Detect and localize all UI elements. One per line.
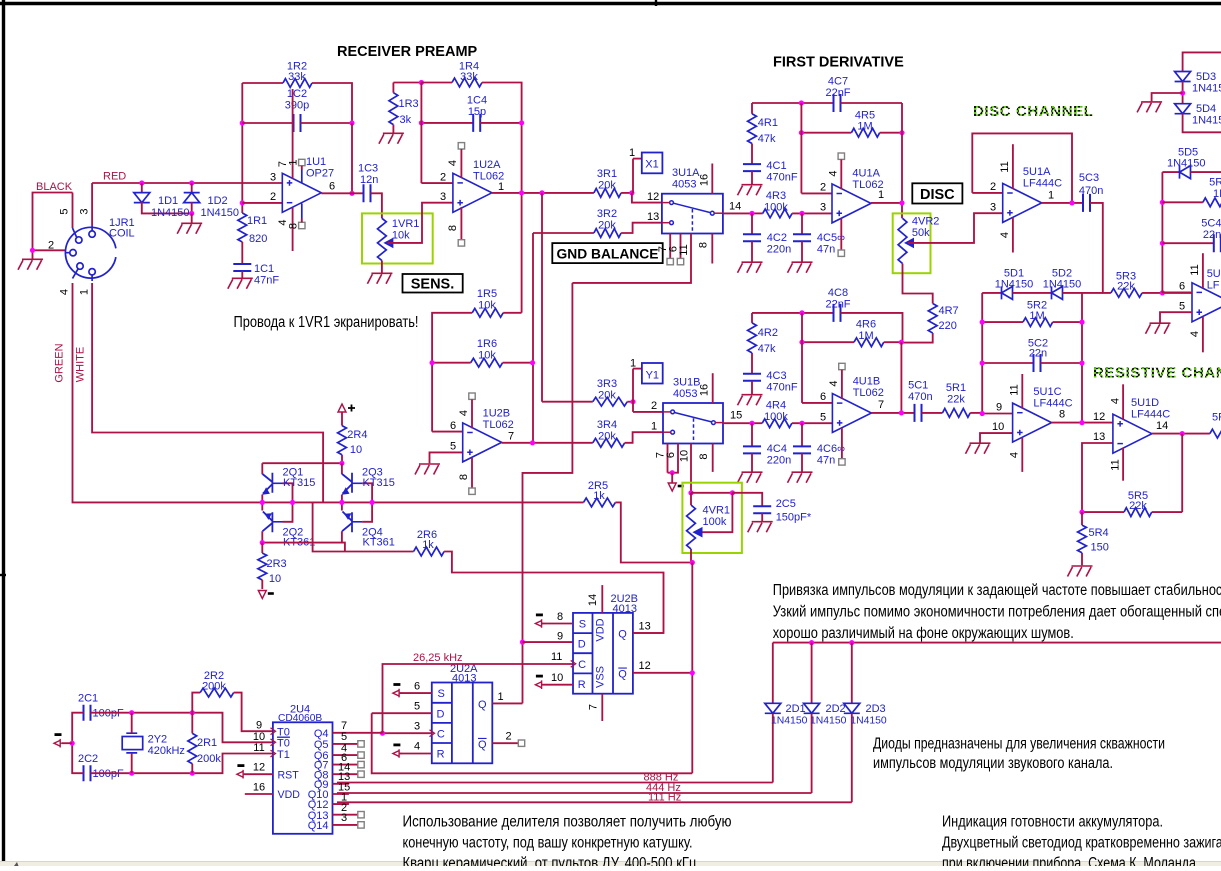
svg-text:4C4: 4C4 bbox=[767, 443, 787, 455]
svg-text:14: 14 bbox=[729, 201, 741, 213]
op-amp 5U1C bbox=[1013, 403, 1052, 442]
node 5C4 left bbox=[1160, 241, 1165, 246]
diode 2D1 bbox=[772, 643, 774, 704]
power flag V- osc bbox=[54, 739, 63, 748]
svg-text:10: 10 bbox=[551, 672, 563, 684]
svg-text:1: 1 bbox=[629, 147, 635, 159]
wire osc bottom rail bbox=[91, 754, 273, 774]
2U2A Qbar wire bbox=[492, 742, 518, 744]
wire 5U1D output bbox=[1152, 433, 1210, 435]
svg-text:4VR2: 4VR2 bbox=[912, 216, 940, 228]
svg-text:1k: 1k bbox=[593, 490, 605, 502]
wire 4VR1 bottom down bbox=[691, 563, 693, 774]
svg-text:OP27: OP27 bbox=[306, 168, 334, 180]
node 1U1 output bbox=[349, 191, 354, 196]
4U1A pin8 stub bbox=[840, 219, 842, 250]
diode 5D1 bbox=[1002, 286, 1013, 299]
svg-text:D: D bbox=[437, 708, 445, 720]
svg-text:2R1: 2R1 bbox=[197, 737, 217, 749]
svg-text:4C8: 4C8 bbox=[828, 287, 848, 299]
node X1 bbox=[629, 190, 634, 195]
svg-text:RST: RST bbox=[278, 769, 300, 781]
svg-text:4C2: 4C2 bbox=[767, 232, 787, 244]
node 2R4 bottom bbox=[339, 461, 344, 466]
wire to 3U1A pin12 bbox=[632, 193, 662, 203]
diode 5D5 bbox=[1162, 171, 1179, 173]
svg-text:150pF*: 150pF* bbox=[776, 512, 812, 524]
op-amp 5U1B bbox=[1192, 283, 1221, 322]
wire 2U2B D bbox=[523, 641, 574, 643]
capacitor 4C1 bbox=[743, 164, 761, 171]
resistor 5R6 bbox=[1162, 201, 1203, 203]
svg-text:6: 6 bbox=[820, 391, 826, 403]
svg-text:4C6∞: 4C6∞ bbox=[817, 443, 845, 455]
5U1B pin11 stub bbox=[1202, 253, 1204, 288]
svg-text:33k: 33k bbox=[460, 71, 478, 83]
wire 1VR1 bottom to ground bbox=[381, 261, 383, 273]
svg-text:3: 3 bbox=[820, 202, 826, 214]
border tick top bbox=[655, 0, 657, 6]
wire modulation rail bbox=[773, 642, 1221, 644]
node 5R2 right bbox=[1079, 320, 1084, 325]
svg-text:10: 10 bbox=[992, 421, 1004, 433]
node 4R3 right bbox=[799, 211, 804, 216]
svg-text:4U1A: 4U1A bbox=[852, 168, 880, 180]
svg-text:20k: 20k bbox=[598, 431, 616, 443]
wire 5U1B +in with ground bbox=[1160, 312, 1192, 322]
svg-text:T1: T1 bbox=[277, 749, 290, 761]
wire 1U2A output row bbox=[492, 192, 594, 194]
wire 1U2A -in bbox=[421, 182, 453, 184]
svg-text:5C4: 5C4 bbox=[1201, 218, 1221, 230]
svg-text:7: 7 bbox=[878, 399, 884, 411]
2U2B pin10 flag bbox=[535, 680, 544, 689]
capacitor 5C2 bbox=[982, 362, 1033, 364]
capacitor 4C2 bbox=[751, 213, 753, 234]
svg-text:1: 1 bbox=[498, 181, 504, 193]
svg-text:1U2A: 1U2A bbox=[473, 159, 501, 171]
svg-text:26,25 kHz: 26,25 kHz bbox=[413, 652, 463, 664]
svg-text:1C4: 1C4 bbox=[467, 95, 487, 107]
node 1R6 right bbox=[530, 360, 535, 365]
svg-text:1N4150: 1N4150 bbox=[1192, 83, 1221, 95]
svg-text:3: 3 bbox=[990, 202, 996, 214]
svg-text:4: 4 bbox=[447, 160, 459, 166]
svg-text:FIRST DERIVATIVE: FIRST DERIVATIVE bbox=[773, 55, 904, 71]
node 4R4 left bbox=[749, 421, 754, 426]
svg-text:4: 4 bbox=[828, 380, 840, 386]
test point box Y1 bbox=[642, 363, 663, 384]
green highlight box 1VR1 bbox=[362, 213, 433, 263]
svg-text:Q: Q bbox=[478, 699, 487, 711]
svg-text:4053: 4053 bbox=[672, 179, 696, 191]
3U1A pin11 wire to 2U2A Q bbox=[572, 234, 691, 283]
svg-text:KT315: KT315 bbox=[283, 477, 315, 489]
resistor 2R3 bbox=[261, 543, 263, 554]
node 2Q1 base bbox=[290, 500, 295, 505]
wire 4VR1 wiper bbox=[700, 493, 732, 532]
node 4C7 left bbox=[799, 100, 804, 105]
svg-text:5: 5 bbox=[450, 441, 456, 453]
svg-text:470nF: 470nF bbox=[766, 382, 797, 394]
svg-text:DISC CHANNEL: DISC CHANNEL bbox=[973, 103, 1094, 120]
svg-text:100k: 100k bbox=[703, 516, 727, 528]
svg-text:11: 11 bbox=[1189, 264, 1201, 275]
svg-text:4C3: 4C3 bbox=[766, 370, 786, 382]
ground at 5U1C +in bbox=[966, 443, 991, 454]
svg-text:VDD: VDD bbox=[278, 789, 301, 801]
1U2B pin4 terminal bbox=[469, 393, 475, 399]
svg-text:22k: 22k bbox=[1129, 500, 1147, 512]
svg-text:1N4150: 1N4150 bbox=[1167, 158, 1206, 170]
svg-text:1R3: 1R3 bbox=[399, 98, 419, 110]
wire 4U1A -in bbox=[801, 192, 832, 194]
wire 2U2A Q to 3U1A pin11 bbox=[523, 283, 573, 704]
svg-text:16: 16 bbox=[699, 174, 711, 186]
svg-text:6: 6 bbox=[1179, 281, 1185, 293]
sheet border left bbox=[2, 0, 5, 866]
resistor 5R1 bbox=[943, 409, 971, 418]
3U1A pin16 line bbox=[711, 164, 713, 194]
wire 2R6 to 2U2B Q bbox=[444, 552, 663, 634]
wire 4U1B -in bbox=[802, 402, 832, 404]
capacitor 1C1 bbox=[233, 264, 251, 271]
svg-text:6: 6 bbox=[665, 452, 677, 458]
node 2U2B Qbar bbox=[690, 670, 695, 675]
svg-text:хорошо различимый на фоне окру: хорошо различимый на фоне окружающих шум… bbox=[773, 625, 1074, 642]
node 4R5 left bbox=[799, 130, 804, 135]
svg-text:4013: 4013 bbox=[452, 672, 476, 684]
node 1D2 top bbox=[189, 180, 194, 185]
svg-text:COIL: COIL bbox=[109, 228, 135, 240]
svg-text:SENS.: SENS. bbox=[411, 277, 455, 293]
svg-text:WHITE: WHITE bbox=[75, 347, 87, 382]
svg-text:4: 4 bbox=[1189, 331, 1201, 337]
svg-text:22n: 22n bbox=[1203, 229, 1221, 241]
coil notch bbox=[112, 248, 121, 257]
diode 1D2 bbox=[191, 183, 193, 192]
wire 1R3 to 1R4 node bbox=[393, 82, 421, 84]
wire 1C3 to 1VR1 bbox=[371, 193, 382, 218]
svg-text:3R4: 3R4 bbox=[597, 419, 617, 431]
5U1D pin4 stub bbox=[1122, 384, 1124, 419]
diode 5D2 bbox=[1052, 286, 1063, 299]
node 5U1A output bbox=[1069, 200, 1074, 205]
2U2B Qbar wire bbox=[633, 672, 692, 674]
node 4VR1 bottom bbox=[690, 560, 695, 565]
node 4R6 left bbox=[799, 340, 804, 345]
svg-text:5: 5 bbox=[1179, 301, 1185, 313]
node 4VR1 top bbox=[688, 490, 693, 495]
svg-text:3: 3 bbox=[79, 208, 91, 214]
sheet border top bbox=[0, 2, 1221, 5]
node 4U1A output bbox=[899, 200, 904, 205]
svg-text:1N4150: 1N4150 bbox=[850, 716, 887, 727]
svg-text:13: 13 bbox=[647, 211, 659, 223]
wire 1R6 right vertical bbox=[532, 233, 534, 443]
svg-text:DISC: DISC bbox=[920, 187, 955, 203]
op-amp 4U1B bbox=[832, 394, 871, 433]
resistor 4R2 bbox=[751, 313, 753, 323]
wire 5U1C -in bbox=[982, 413, 1012, 415]
node 5R2 left bbox=[980, 320, 985, 325]
ground at 1U2B +in bbox=[415, 464, 440, 475]
node 1C2 left bbox=[240, 120, 245, 125]
svg-text:10k: 10k bbox=[478, 350, 496, 362]
svg-text:15p: 15p bbox=[468, 106, 486, 118]
svg-text:7: 7 bbox=[508, 431, 514, 443]
resistor 1R6 bbox=[471, 358, 503, 367]
border tick left bbox=[0, 574, 6, 576]
svg-text:12: 12 bbox=[647, 191, 659, 203]
svg-text:4: 4 bbox=[414, 741, 420, 753]
svg-text:4C1: 4C1 bbox=[766, 160, 786, 172]
svg-text:1: 1 bbox=[498, 691, 504, 703]
1VR1 wiper wire to 1U2A +in bbox=[388, 203, 453, 243]
svg-text:3: 3 bbox=[440, 191, 446, 203]
svg-text:47n: 47n bbox=[817, 455, 835, 467]
wire Y1 stub bbox=[632, 369, 634, 412]
1U1 pin8 terminal bbox=[299, 222, 305, 228]
resistor 2R5 bbox=[584, 498, 616, 507]
transistor 2Q3 bbox=[341, 463, 343, 474]
wire collector rail bbox=[262, 462, 342, 464]
resistor 3R1 bbox=[594, 189, 621, 198]
svg-text:150: 150 bbox=[1091, 542, 1109, 554]
svg-text:2D2: 2D2 bbox=[826, 703, 846, 715]
label box DISC bbox=[912, 183, 962, 203]
resistor 1R2 bbox=[242, 82, 283, 84]
transistor 2Q4 bbox=[341, 502, 343, 510]
diode 1D1 bbox=[141, 183, 143, 192]
capacitor 2C5 bbox=[753, 506, 771, 513]
svg-text:TL062: TL062 bbox=[853, 387, 884, 399]
svg-text:8: 8 bbox=[698, 453, 710, 459]
2U2A D net vertical bbox=[372, 713, 693, 773]
svg-text:1: 1 bbox=[630, 357, 636, 369]
5U1C pin11 stub bbox=[1021, 374, 1023, 409]
wire 1C2 right down to output node bbox=[351, 123, 353, 193]
svg-text:1VR1: 1VR1 bbox=[392, 218, 420, 230]
flip-flop 2U2B bbox=[573, 613, 633, 694]
node 1D2 bottom bbox=[189, 211, 194, 216]
1U2A pin8 terminal bbox=[460, 207, 462, 240]
svg-text:импульсов модуляции звукового: импульсов модуляции звукового канала. bbox=[873, 755, 1113, 772]
node 4VR1 wiper top bbox=[730, 490, 735, 495]
node 2U2A C bbox=[380, 731, 385, 736]
svg-text:GREEN: GREEN bbox=[54, 343, 66, 382]
3U1B pin7 stub bbox=[667, 444, 669, 473]
wire 1U2B +in and ground bbox=[430, 452, 463, 463]
wire 4U1B -in vertical bbox=[801, 313, 803, 403]
green highlight box 4VR1 bbox=[682, 483, 742, 553]
svg-text:5U1D: 5U1D bbox=[1131, 397, 1159, 409]
svg-text:4R4: 4R4 bbox=[766, 400, 786, 412]
svg-text:100k: 100k bbox=[764, 202, 788, 214]
resistor 1R1 bbox=[241, 83, 243, 213]
svg-text:2C1: 2C1 bbox=[78, 693, 98, 705]
svg-text:12: 12 bbox=[253, 762, 265, 774]
wire gnd stub at coil pin2 bbox=[32, 250, 34, 258]
node 2R1 bottom bbox=[190, 771, 195, 776]
svg-text:1N4150: 1N4150 bbox=[1043, 279, 1082, 291]
svg-text:4: 4 bbox=[1009, 452, 1021, 458]
svg-text:9: 9 bbox=[996, 402, 1002, 414]
svg-text:5R: 5R bbox=[1212, 412, 1221, 424]
2U4 Q10 wire pin15 to 444Hz bbox=[333, 793, 349, 794]
svg-text:470nF: 470nF bbox=[766, 172, 797, 184]
svg-text:Провода к 1VR1 экранировать!: Провода к 1VR1 экранировать! bbox=[234, 314, 419, 331]
svg-text:820: 820 bbox=[249, 233, 267, 245]
svg-text:10k: 10k bbox=[478, 300, 496, 312]
svg-text:S: S bbox=[438, 688, 445, 700]
net 888 Hz line bbox=[337, 782, 773, 784]
2U2A pin4 flag bbox=[393, 749, 402, 758]
svg-text:5C3: 5C3 bbox=[1079, 172, 1099, 184]
svg-text:2: 2 bbox=[820, 182, 826, 194]
resistor 3R4 bbox=[593, 438, 625, 447]
diode 5D4 bbox=[1175, 104, 1191, 114]
node 5C2 left bbox=[980, 360, 985, 365]
svg-text:Диоды предназначены для увелич: Диоды предназначены для увеличения скваж… bbox=[873, 736, 1165, 753]
node 1D1 top bbox=[139, 180, 144, 185]
node out 1U2A b bbox=[539, 190, 544, 195]
svg-text:14: 14 bbox=[1156, 420, 1168, 432]
node V- osc bbox=[70, 741, 75, 746]
svg-text:3R3: 3R3 bbox=[597, 378, 617, 390]
4U1B pin8 stub bbox=[841, 428, 843, 459]
svg-text:VDD: VDD bbox=[595, 618, 607, 641]
svg-text:3R2: 3R2 bbox=[597, 208, 617, 220]
1U2B pin8 terminal bbox=[471, 458, 473, 488]
svg-text:11: 11 bbox=[1009, 384, 1021, 395]
wire 4VR2 bottom to 4R7 bbox=[903, 264, 933, 304]
power flag V- under 2R3 bbox=[258, 591, 266, 599]
svg-text:200k: 200k bbox=[202, 680, 226, 692]
node 5U1C output bbox=[1079, 420, 1084, 425]
power flag V- under 3U1B bbox=[668, 483, 676, 491]
svg-text:LF: LF bbox=[1207, 280, 1220, 292]
ground under 1C1 bbox=[228, 278, 253, 289]
node 4C8 left bbox=[799, 310, 804, 315]
svg-text:1N4150: 1N4150 bbox=[995, 279, 1034, 291]
2U4 Q9 wire pin13 to 888Hz bbox=[333, 783, 349, 784]
potentiometer 1VR1 bbox=[378, 218, 387, 260]
svg-text:RED: RED bbox=[103, 171, 126, 183]
wire 5U1B -in bbox=[1162, 291, 1192, 293]
svg-text:8: 8 bbox=[288, 223, 300, 229]
op-amp 1U2A bbox=[453, 173, 492, 212]
svg-text:4R6: 4R6 bbox=[856, 319, 876, 331]
ground near coil bbox=[18, 259, 43, 270]
2U4 Q8 stub pin14 bbox=[333, 773, 358, 775]
svg-text:4013: 4013 bbox=[613, 603, 637, 615]
op-amp 4U1A bbox=[832, 184, 871, 223]
ground near 5D3 bbox=[1137, 102, 1162, 113]
wire 1U2A -in vertical bbox=[420, 83, 422, 184]
2U2B pin11 wire bbox=[572, 663, 574, 664]
wire 2C5 branch bbox=[732, 493, 762, 506]
svg-text:2Y2: 2Y2 bbox=[148, 734, 168, 746]
svg-text:D: D bbox=[578, 639, 586, 651]
resistor 4R3 bbox=[752, 212, 763, 214]
svg-text:1: 1 bbox=[878, 189, 884, 201]
wire 5U1A -in bbox=[972, 192, 1002, 194]
capacitor 1C4 bbox=[421, 122, 473, 124]
2U2A Q wire bbox=[492, 702, 522, 704]
svg-text:R: R bbox=[437, 749, 445, 761]
svg-text:5U1C: 5U1C bbox=[1033, 386, 1061, 398]
ground under 4C2 bbox=[738, 262, 763, 273]
crystal 2Y2 bbox=[122, 733, 143, 753]
net 444 Hz line bbox=[337, 792, 812, 794]
1U1 pin1 terminal bbox=[299, 159, 305, 165]
svg-text:10: 10 bbox=[350, 444, 362, 456]
green highlight box 4VR2 bbox=[893, 213, 931, 273]
svg-text:10k: 10k bbox=[392, 230, 410, 242]
svg-text:1U2B: 1U2B bbox=[483, 408, 511, 420]
svg-text:420kHz: 420kHz bbox=[148, 745, 185, 757]
svg-text:3U1B: 3U1B bbox=[673, 377, 701, 389]
svg-text:Y1: Y1 bbox=[646, 369, 659, 381]
svg-text:3: 3 bbox=[341, 812, 347, 824]
svg-text:6: 6 bbox=[329, 181, 335, 193]
label box GND BALANCE bbox=[552, 243, 662, 263]
node 3U1B gnd flag bbox=[670, 470, 675, 475]
svg-text:5: 5 bbox=[341, 731, 347, 743]
wire 4U1B output bbox=[871, 412, 914, 414]
wire 5D1 5D2 feedback row bbox=[982, 292, 1001, 294]
wire 1U2B -in bbox=[432, 431, 463, 433]
node 2R3 top bbox=[260, 540, 265, 545]
wire 4VR1 top rail bbox=[691, 492, 732, 494]
svg-text:5D4: 5D4 bbox=[1196, 103, 1216, 115]
svg-text:2D3: 2D3 bbox=[866, 703, 886, 715]
svg-text:2: 2 bbox=[990, 181, 996, 193]
bottom window strip bbox=[0, 862, 1221, 867]
coil pin circles bbox=[65, 226, 95, 281]
capacitor 4C3 bbox=[743, 374, 761, 381]
svg-text:5: 5 bbox=[59, 208, 71, 214]
svg-text:4R7: 4R7 bbox=[939, 305, 959, 317]
svg-text:Кварц керамический, от пультов: Кварц керамический, от пультов ДУ, 400-5… bbox=[403, 855, 697, 866]
ground under 4C4 bbox=[738, 472, 763, 483]
svg-text:3U1A: 3U1A bbox=[672, 167, 700, 179]
node 4U1B output bbox=[899, 410, 904, 415]
svg-text:Q: Q bbox=[478, 739, 487, 751]
svg-text:Двухцветный светодиод кратковр: Двухцветный светодиод кратковременно заж… bbox=[942, 835, 1221, 852]
svg-text:13: 13 bbox=[1093, 431, 1105, 443]
svg-text:15: 15 bbox=[730, 410, 742, 422]
svg-text:3: 3 bbox=[270, 172, 276, 184]
counter 2U4 CD4060B bbox=[273, 722, 333, 834]
svg-text:X1: X1 bbox=[645, 159, 658, 171]
svg-text:47n: 47n bbox=[817, 244, 835, 256]
svg-text:200k: 200k bbox=[197, 753, 221, 765]
svg-text:50k: 50k bbox=[912, 227, 930, 239]
svg-text:1: 1 bbox=[1048, 190, 1054, 202]
wire 5U1A feedback loop top bbox=[972, 133, 1072, 203]
svg-text:2: 2 bbox=[48, 240, 54, 252]
capacitor 4C6 bbox=[801, 423, 803, 446]
resistor 4R1 bbox=[751, 103, 753, 114]
svg-text:12: 12 bbox=[1093, 411, 1105, 423]
svg-text:1N4150: 1N4150 bbox=[1192, 115, 1221, 127]
1U1 pin4 line bbox=[292, 208, 294, 252]
svg-text:20k: 20k bbox=[598, 180, 616, 192]
svg-text:1U1: 1U1 bbox=[306, 156, 326, 168]
resistor 4R5 bbox=[801, 132, 851, 134]
